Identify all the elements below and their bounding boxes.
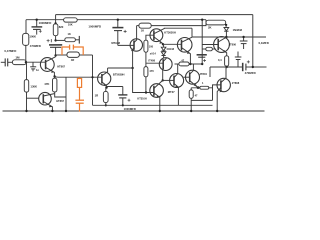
input terminal stub: [1, 61, 5, 63]
svg-text:KT3620H: KT3620H: [164, 31, 176, 35]
junction dot 47K ground: [65, 110, 67, 112]
junction dot 0.1MFD top: [242, 36, 244, 38]
transistor Q2 HT867 lower: [39, 92, 52, 105]
svg-text:1000MFD: 1000MFD: [39, 21, 52, 25]
svg-text:HT867: HT867: [57, 65, 65, 69]
junction dot Q7 emitter on y64 wire: [189, 63, 191, 65]
wire to MTA48 base: [118, 44, 134, 46]
junction dot Q2 emitter ground: [51, 110, 53, 112]
junction dot R470 bottom: [145, 91, 147, 93]
base feed from R100: [146, 35, 154, 40]
wire lower bus y105.3: [93, 104, 213, 106]
svg-text:100K: 100K: [29, 35, 36, 39]
capacitor C in 0.47MFD input: [4, 58, 6, 66]
svg-text:1000MFD: 1000MFD: [88, 24, 101, 28]
svg-text:470MFD: 470MFD: [245, 71, 256, 75]
junction dot JT808 emitter ground: [216, 110, 218, 112]
wire Q3 collector to MTA48 emitter line: [108, 67, 133, 69]
node rail junction x55.6: [55, 15, 57, 24]
svg-text:1n: 1n: [36, 68, 39, 72]
svg-text:1M: 1M: [15, 56, 20, 60]
junction dot output node: [252, 66, 254, 68]
svg-text:0,4: 0,4: [218, 58, 222, 62]
resistor R 10K top: [64, 18, 78, 22]
ground rail: [3, 110, 265, 112]
resistor R 1K mid: [139, 23, 151, 28]
resistor R 100K (upper bias): [23, 33, 29, 45]
wire left corner down from rail to 100K: [25, 20, 27, 34]
wire node A to 1K resistor: [56, 39, 65, 41]
transistor Q8 MT37 left: [150, 84, 164, 98]
transistor Q5 KT3620H: [150, 29, 163, 42]
resistor R 47 horizontal: [179, 62, 189, 66]
diode D1: [163, 44, 165, 47]
junction dot Q3 emitter: [105, 86, 107, 88]
svg-text:470MFD: 470MFD: [30, 44, 41, 48]
svg-text:1K: 1K: [68, 32, 71, 36]
diode D2: [161, 52, 166, 55]
orange series RC to ground: [75, 77, 84, 112]
wire input node to Q1 base: [26, 61, 45, 63]
wire output stub to speaker terminal: [253, 66, 267, 68]
junction dot 1R bus: [105, 104, 107, 106]
resistor R 0.47 emitter: [225, 56, 229, 66]
capacitor C 470MFD electrolytic: [49, 44, 62, 46]
svg-text:N4148: N4148: [167, 48, 175, 51]
junction dot Q10 emitter node: [197, 86, 200, 89]
svg-text:10K: 10K: [68, 23, 73, 27]
resistor R 1K (with end bar): [65, 38, 76, 42]
capacitor C 1000MFD mid-top electrolytic: [117, 20, 119, 28]
transistor Q11 JT806: [214, 37, 230, 53]
transistor Q6 IT486: [159, 58, 172, 71]
transistor Q4 MTA48: [130, 39, 142, 51]
resistor R 47K: [54, 76, 56, 78]
svg-text:MT37: MT37: [168, 90, 175, 94]
wire Q1 emitter node to feedback line: [55, 76, 102, 78]
capacitor C 100MFD mid-bottom: [122, 87, 124, 95]
orange parallel capacitor over 4R: [62, 45, 83, 55]
wire branch to Q2 base: [27, 97, 39, 99]
junction dot Q8 emitter ground: [159, 110, 161, 112]
junction dot at 820 top: [54, 22, 56, 24]
svg-text:2K: 2K: [208, 25, 212, 29]
resistor R 4R: [67, 52, 80, 57]
svg-text:130K: 130K: [30, 84, 37, 88]
wire down to Q3 base node: [92, 55, 94, 105]
capacitor C 0.1MFD: [243, 37, 245, 41]
svg-text:JT808: JT808: [232, 81, 240, 85]
capacitor C 1n to ground stub: [32, 62, 34, 67]
resistor R 1R: [105, 87, 107, 92]
resistor R 1M input: [12, 60, 26, 65]
resistor R 5 horizontal: [200, 86, 209, 89]
junction dot C1 top: [36, 19, 38, 21]
wire node x66 down to ground: [65, 77, 67, 111]
junction dot y64/x202: [201, 63, 203, 65]
wire second supply rail: [26, 19, 206, 21]
svg-text:JT804: JT804: [200, 72, 208, 76]
svg-text:47K: 47K: [44, 82, 49, 86]
junction dot IT486 emitter node: [162, 79, 164, 81]
svg-text:470: 470: [149, 69, 154, 73]
wire R5 loop down: [191, 99, 212, 101]
junction dot input node: [25, 61, 27, 63]
svg-text:KT310H: KT310H: [137, 98, 147, 101]
transistor Q3 BT5639H: [98, 72, 111, 85]
resistor R 820: [53, 24, 58, 36]
diode D3: [225, 25, 227, 28]
wire V+ top rail: [56, 14, 253, 16]
resistor R 470: [144, 67, 148, 77]
junction dot diode/collector on y37 wire: [225, 36, 227, 38]
resistor R 100: [144, 40, 148, 52]
svg-text:4R: 4R: [71, 58, 74, 62]
svg-text:1R: 1R: [95, 94, 99, 98]
capacitor C electrolytic at x202: [197, 54, 207, 56]
junction dot node B (collector/4R wire): [54, 54, 56, 56]
polarity + mark: [47, 39, 50, 42]
junction dot 1000MFD top: [117, 19, 119, 21]
wire to JT806 base: [202, 44, 218, 46]
wire 47K bottom loop: [55, 92, 66, 97]
driver transistor Q7 big: [163, 43, 182, 45]
capacitor C small at 238: [237, 52, 239, 58]
transistor Q1 HT867: [40, 58, 54, 72]
svg-text:1N4848: 1N4848: [233, 28, 243, 32]
capacitor C 470MFD output electrolytic: [242, 63, 244, 71]
wire x202 vertical: [201, 20, 203, 64]
transistor Q12 JT808: [217, 78, 230, 91]
resistor R 130K (lower bias): [26, 62, 28, 79]
wire node B to 4R network: [56, 54, 67, 56]
svg-text:MTA48: MTA48: [111, 41, 120, 45]
junction dot Q1 emitter node: [53, 75, 55, 77]
junction dot KT3620H emitter node: [162, 43, 164, 45]
wire MTA48 emitter down to base line of MT37: [133, 68, 154, 93]
svg-text:0,1MFD: 0,1MFD: [259, 41, 269, 45]
transistor Q10 JT804: [186, 70, 200, 84]
junction dot 0.47 output node: [226, 66, 228, 68]
svg-text:100: 100: [149, 45, 154, 49]
junction dot feedback/base node x92.5: [91, 76, 93, 78]
svg-text:0,47MFD: 0,47MFD: [4, 49, 16, 53]
svg-text:BT5639H: BT5639H: [113, 73, 125, 77]
resistor R 47 vertical: [189, 90, 193, 98]
svg-text:1000MFD: 1000MFD: [124, 107, 136, 111]
junction dot R47 ground: [190, 110, 192, 112]
output wire y67: [210, 66, 242, 68]
wire IT486 emitter node to MT39 base: [163, 79, 174, 81]
wire right edge of V+ loop down to output node: [252, 15, 254, 67]
junction dot 2K right: [225, 24, 227, 26]
wire 100K bottom to input node: [25, 45, 27, 62]
svg-text:1K: 1K: [141, 29, 144, 33]
wire Q3 emitter to 100MFD: [106, 86, 123, 88]
wire collector bus y28.2: [164, 27, 192, 29]
svg-text:IT486: IT486: [148, 59, 155, 63]
resistor R base stopper JT806: [206, 47, 213, 51]
junction dot node A (820/470MFD/1K-res): [54, 39, 56, 41]
svg-text:xA14: xA14: [150, 53, 157, 56]
svg-text:JT806: JT806: [229, 43, 237, 47]
svg-text:HT867: HT867: [56, 99, 64, 103]
junction dot 130K to ground: [25, 110, 27, 112]
transistor Q9 center: [170, 74, 184, 88]
resistor R 2K: [206, 20, 226, 25]
capacitor C1 100MFD at top-left: [36, 20, 38, 27]
junction dot collector node: [131, 67, 133, 69]
wire y37 to output coupling: [192, 36, 266, 38]
svg-text:820: 820: [59, 25, 64, 29]
